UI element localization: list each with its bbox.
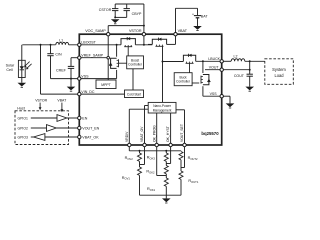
svg-text:bq25570: bq25570 <box>201 131 219 136</box>
svg-text:Cell: Cell <box>6 68 13 72</box>
svg-text:Cold Start: Cold Start <box>127 92 141 96</box>
svg-text:VBAT_OV: VBAT_OV <box>140 126 144 142</box>
svg-text:GPIO1: GPIO1 <box>18 116 28 120</box>
svg-text:Solar: Solar <box>6 63 15 67</box>
svg-text:OK_PROG: OK_PROG <box>152 125 156 142</box>
svg-text:VBAT: VBAT <box>57 99 67 103</box>
svg-text:VBAT: VBAT <box>178 29 188 33</box>
svg-text:COUT: COUT <box>234 74 245 78</box>
svg-text:GPIO3: GPIO3 <box>18 135 28 139</box>
svg-text:GPIO2: GPIO2 <box>18 126 28 130</box>
svg-text:CIN: CIN <box>55 53 62 57</box>
svg-text:MPPT: MPPT <box>101 83 110 87</box>
svg-text:BAT: BAT <box>201 14 209 18</box>
svg-text:Host: Host <box>17 106 25 110</box>
svg-text:VBAT_OK: VBAT_OK <box>82 135 99 139</box>
svg-text:LBOOST: LBOOST <box>81 41 96 45</box>
svg-text:VSTOR: VSTOR <box>129 29 142 33</box>
svg-text:CREF: CREF <box>56 69 67 73</box>
svg-text:CBYP: CBYP <box>132 12 142 16</box>
svg-text:System: System <box>272 67 286 72</box>
svg-text:VOC_SAMP: VOC_SAMP <box>85 29 106 33</box>
svg-text:EN: EN <box>82 116 87 120</box>
svg-text:Load: Load <box>274 73 284 78</box>
svg-text:CSTOR: CSTOR <box>99 8 112 12</box>
svg-text:VSS: VSS <box>81 74 89 78</box>
svg-text:Controller: Controller <box>176 80 191 84</box>
svg-text:VOUT_EN: VOUT_EN <box>82 126 99 130</box>
svg-text:VSS: VSS <box>210 92 218 96</box>
svg-text:VRDIV: VRDIV <box>125 131 129 142</box>
svg-text:Controller: Controller <box>128 63 143 67</box>
svg-text:VIN_DC: VIN_DC <box>81 90 95 94</box>
svg-text:LBUCK: LBUCK <box>208 57 220 61</box>
svg-text:L2: L2 <box>234 55 238 59</box>
svg-text:+: + <box>192 12 194 16</box>
svg-text:VSTOR: VSTOR <box>35 99 47 103</box>
svg-text:Management: Management <box>153 108 172 112</box>
svg-text:VREF_SAMP: VREF_SAMP <box>81 53 103 57</box>
svg-text:VOUT_SET: VOUT_SET <box>180 124 184 142</box>
svg-text:L1: L1 <box>59 39 63 43</box>
svg-text:VOUT: VOUT <box>209 65 220 69</box>
svg-text:OK_HYST: OK_HYST <box>166 126 170 142</box>
